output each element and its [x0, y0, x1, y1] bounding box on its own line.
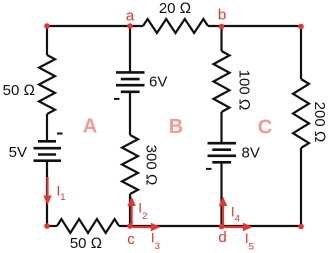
resistor 100 ohm [214, 51, 230, 112]
current arrow I1 [43, 177, 51, 205]
svg-text:A: A [83, 116, 97, 138]
wire bottom rail c-d-right [119, 225, 301, 227]
resistor 50 ohm left [39, 55, 55, 114]
battery 8V minus sign [206, 168, 212, 170]
node dot top-left [44, 23, 50, 29]
wire right vertical top segment [300, 26, 302, 79]
svg-text:100 Ω: 100 Ω [235, 70, 252, 111]
svg-text:d: d [218, 229, 226, 246]
svg-text:8V: 8V [242, 145, 260, 162]
svg-text:I1: I1 [57, 184, 66, 204]
resistor 300 ohm [122, 135, 138, 194]
wire top rail 20 ohm resistor to right [208, 25, 301, 27]
battery B3 8V [208, 143, 237, 162]
wire node a down to 6V battery [129, 26, 131, 72]
svg-text:50 Ω: 50 Ω [70, 235, 102, 252]
wire left vertical top segment [46, 26, 48, 55]
current arrow I5 [225, 223, 253, 231]
svg-text:I4: I4 [231, 204, 240, 224]
wire bottom-left to resistor [47, 225, 57, 227]
node dot top-right [298, 24, 304, 30]
svg-text:C: C [258, 116, 272, 138]
wire left between resistor and battery [46, 114, 48, 141]
node c junction dot [127, 223, 133, 229]
svg-text:I2: I2 [138, 200, 147, 222]
svg-text:I5: I5 [245, 231, 254, 253]
svg-text:I3: I3 [151, 230, 160, 252]
wire left bottom segment [46, 161, 48, 226]
svg-text:B: B [169, 116, 183, 138]
wire 100 ohm to 8V battery [220, 112, 222, 143]
svg-text:a: a [126, 8, 135, 25]
resistor 200 ohm [293, 79, 309, 148]
node a junction dot [127, 23, 133, 29]
wire 8V battery to node d [220, 162, 222, 226]
svg-text:6V: 6V [149, 74, 167, 91]
battery B1 5V [34, 141, 62, 160]
svg-text:20 Ω: 20 Ω [159, 0, 191, 17]
resistor 20 ohm top [143, 19, 208, 33]
svg-text:200 Ω: 200 Ω [311, 102, 328, 143]
current arrow I4 [219, 197, 227, 227]
battery 5V minus sign [57, 133, 63, 135]
wire 300 ohm resistor down to node c [129, 194, 131, 226]
wire right vertical bottom segment [300, 148, 302, 226]
node d junction dot [219, 224, 225, 230]
wire 6V battery to 300 ohm resistor [129, 92, 131, 135]
battery B2 6V [116, 72, 145, 91]
battery 6V minus sign [114, 98, 120, 100]
current arrow I2 [127, 197, 135, 227]
svg-text:300 Ω: 300 Ω [142, 145, 159, 186]
svg-text:c: c [127, 231, 135, 248]
svg-text:b: b [218, 7, 226, 24]
wire top rail left to 20 ohm resistor [47, 25, 143, 27]
node dot bottom-left [44, 223, 50, 229]
resistor 50 ohm bottom [57, 219, 119, 233]
current arrow I3 [133, 223, 161, 231]
node dot bottom-right [298, 224, 304, 230]
node b junction dot [219, 24, 225, 30]
wire node b down to 100 ohm resistor [220, 26, 222, 51]
svg-text:50 Ω: 50 Ω [3, 82, 35, 99]
svg-text:5V: 5V [9, 144, 27, 161]
